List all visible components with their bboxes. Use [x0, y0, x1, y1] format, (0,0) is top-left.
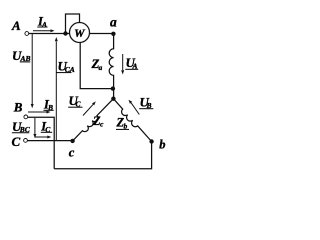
- svg-text:W: W: [74, 26, 86, 40]
- svg-text:c: c: [69, 145, 75, 159]
- svg-text:C: C: [12, 134, 21, 149]
- svg-text:a: a: [110, 15, 117, 30]
- svg-text:B: B: [146, 101, 152, 110]
- svg-text:CA: CA: [65, 65, 75, 74]
- svg-text:B: B: [47, 103, 53, 112]
- svg-text:B: B: [13, 99, 23, 114]
- svg-text:A: A: [11, 18, 21, 33]
- svg-text:AB: AB: [20, 54, 31, 63]
- svg-text:a: a: [99, 63, 103, 72]
- svg-text:BC: BC: [19, 125, 31, 134]
- svg-text:b: b: [124, 121, 128, 130]
- svg-text:A: A: [132, 61, 138, 70]
- svg-text:A: A: [41, 20, 47, 29]
- svg-text:b: b: [159, 138, 165, 152]
